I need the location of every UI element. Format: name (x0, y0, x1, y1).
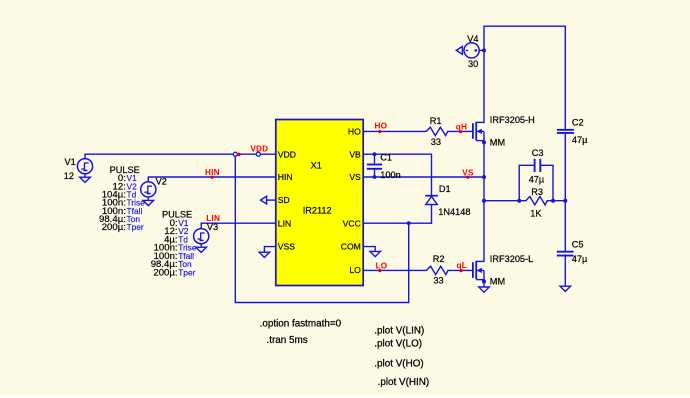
svg-text:C3: C3 (532, 148, 544, 158)
wire C2 bottom to C5 top (564, 133, 566, 252)
junction V4 to rail (482, 48, 486, 52)
Q2 arrow (476, 268, 482, 273)
voltage source V3 (194, 229, 209, 244)
wire half-bridge mid vertical (483, 142, 485, 261)
wire VCC: IC VCC pin to D1 anode (363, 222, 432, 224)
red dot qL (459, 269, 462, 272)
svg-text:Tper: Tper (127, 222, 144, 232)
svg-text:33: 33 (431, 137, 441, 147)
svg-text:V3: V3 (207, 222, 218, 232)
junction R3 right (551, 199, 555, 203)
voltage source V1 (77, 159, 92, 174)
voltage source V4 (464, 43, 484, 58)
svg-text:.plot V(HIN): .plot V(HIN) (378, 377, 430, 388)
capacitor C5 (557, 252, 574, 287)
svg-text:Tper: Tper (178, 267, 195, 277)
wire VDD to VCC loop (left vertical, bottom, right vertical) (235, 154, 408, 302)
diode D1 (425, 196, 438, 205)
V4 plus dot (475, 49, 478, 52)
ground under C5 (560, 286, 571, 291)
wire R3 right to output node (547, 200, 565, 202)
svg-text:MM: MM (490, 277, 505, 287)
svg-text:.plot V(LO): .plot V(LO) (374, 339, 422, 350)
svg-text:HO: HO (348, 127, 361, 137)
svg-text:47µ: 47µ (572, 254, 588, 264)
svg-text:.plot V(HO): .plot V(HO) (374, 358, 423, 369)
resistor R2 (427, 266, 449, 274)
IC X1 IR2112 (276, 120, 363, 286)
svg-text:HIN: HIN (278, 172, 293, 182)
svg-text:SD: SD (278, 195, 290, 205)
svg-text:.tran 5ms: .tran 5ms (267, 335, 308, 346)
svg-text:VSS: VSS (278, 242, 295, 252)
voltage source V2 (141, 182, 156, 197)
svg-text:R2: R2 (433, 254, 445, 264)
wire V4 positive rail: top rail to C2 (484, 26, 565, 129)
svg-text:MM: MM (490, 138, 505, 148)
svg-text:V1: V1 (65, 157, 76, 167)
svg-text:V4: V4 (467, 34, 478, 44)
ground under Q2 (479, 287, 490, 292)
svg-text:33: 33 (433, 276, 443, 286)
red dot LO (378, 269, 381, 272)
svg-text:47µ: 47µ (529, 175, 545, 185)
ground under V3 (196, 244, 207, 253)
svg-text:LO: LO (376, 261, 388, 270)
ground at COM pin (363, 247, 381, 257)
junction Q2 source node (482, 280, 486, 284)
Q1 arrow (476, 129, 482, 134)
transistor Q1 IRF3205-H (473, 122, 484, 143)
svg-text:HO: HO (375, 121, 388, 130)
red dot HIN (210, 176, 213, 179)
wire VB: IC VB pin to D1 cathode (363, 154, 432, 195)
junction C1 bottom (373, 175, 377, 179)
svg-text:C1: C1 (380, 153, 392, 163)
capacitor C2 (557, 130, 574, 133)
wire LO: IC LO pin to R2 (363, 269, 427, 271)
wire HIN net: V2 top to IC HIN pin (148, 177, 275, 182)
svg-text:47µ: 47µ (572, 135, 588, 145)
wire VDD net: V1 top to IC VDD pin (85, 154, 276, 158)
wire HO: IC HO pin to R1 (363, 130, 426, 132)
svg-text:VDD: VDD (278, 149, 296, 159)
svg-text:LIN: LIN (206, 214, 220, 223)
svg-text:1K: 1K (530, 208, 542, 218)
svg-text:R3: R3 (531, 187, 543, 197)
wire LIN net: V3 top to IC LIN pin (201, 223, 276, 228)
junction output node (563, 199, 567, 203)
capacitor C3 (519, 159, 553, 201)
ground under V1 (80, 174, 91, 183)
svg-text:X1: X1 (311, 161, 322, 171)
svg-text:qL: qL (457, 261, 467, 270)
svg-text:LO: LO (349, 265, 361, 275)
junction R3 left (517, 199, 521, 203)
svg-text:IRF3205-L: IRF3205-L (490, 254, 533, 264)
resistor R1 (426, 127, 448, 135)
svg-text:LIN: LIN (278, 218, 291, 228)
svg-text:VS: VS (349, 172, 361, 182)
svg-text:C2: C2 (572, 117, 584, 127)
junction VCC node (407, 221, 411, 225)
svg-text:12: 12 (64, 171, 74, 181)
V4 port arrow (456, 46, 462, 54)
wire qH: R1 to Q1 gate (448, 130, 473, 132)
pin SD input arrow (261, 196, 276, 204)
svg-text:.plot V(LIN): .plot V(LIN) (374, 325, 424, 336)
wire VS node to R3 left (484, 200, 526, 202)
junction R3 row left node (482, 199, 486, 203)
svg-text:VB: VB (349, 149, 361, 159)
red dot HO (378, 130, 381, 133)
junction ring under VDD label (256, 152, 260, 156)
svg-text:.option fastmath=0: .option fastmath=0 (260, 318, 342, 329)
capacitor C1 (367, 154, 382, 177)
junction C1 top (373, 152, 377, 156)
svg-text:1N4148: 1N4148 (438, 207, 470, 217)
svg-text:D1: D1 (439, 184, 451, 194)
svg-text:IRF3205-H: IRF3205-H (490, 115, 535, 125)
wire VS: IC VS pin to half-bridge midpoint (363, 176, 484, 178)
svg-text:V2: V2 (156, 176, 167, 186)
junction ring at VDD tap (233, 152, 237, 156)
resistor R3 (526, 197, 548, 205)
ground at VSS pin (259, 247, 276, 258)
svg-text:200µ:: 200µ: (153, 267, 177, 278)
transistor Q2 IRF3205-L (473, 261, 484, 287)
red dot qH (459, 130, 462, 133)
svg-text:COM: COM (341, 242, 361, 252)
svg-text:C5: C5 (572, 239, 584, 249)
svg-text:100n: 100n (380, 170, 400, 180)
svg-text:qH: qH (456, 122, 467, 131)
junction VS mid node (482, 175, 486, 179)
red dot VDD (237, 153, 241, 157)
svg-text:VCC: VCC (343, 218, 361, 228)
svg-text:30: 30 (468, 59, 478, 69)
red dot VS (466, 176, 469, 179)
junction Q1 source node (482, 140, 486, 144)
wire D1 anode drop (431, 205, 433, 224)
ground under V2 (143, 197, 154, 206)
svg-text:R1: R1 (430, 116, 442, 126)
svg-text:200µ:: 200µ: (102, 222, 126, 233)
svg-text:IR2112: IR2112 (303, 206, 332, 216)
wire qL: R2 to Q2 gate (448, 269, 472, 271)
